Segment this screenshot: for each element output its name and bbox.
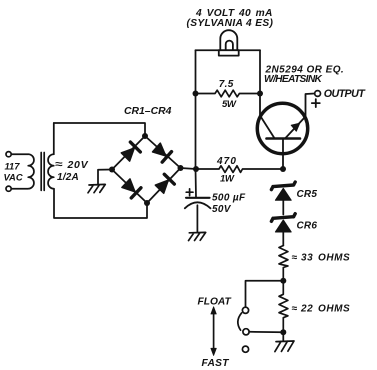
ground at R4 bottom <box>275 341 294 352</box>
selector double arrow <box>213 312 215 352</box>
node junction bus at 470 row <box>193 166 199 172</box>
bridge arm top-left <box>112 136 145 170</box>
svg-text:≈: ≈ <box>292 303 298 314</box>
svg-text:CR6: CR6 <box>297 221 318 232</box>
svg-text:≈: ≈ <box>292 253 298 264</box>
switch S1 wiper arc <box>238 313 242 330</box>
bridge arm bottom-left <box>112 170 147 204</box>
bridge arm top-right <box>145 136 181 168</box>
svg-text:≈: ≈ <box>55 158 63 170</box>
svg-text:W/HEATSINK: W/HEATSINK <box>264 74 323 85</box>
selector arrow head up <box>211 307 216 314</box>
transformer T1 primary winding <box>28 154 34 189</box>
wire junction to ground <box>282 332 284 341</box>
svg-text:5W: 5W <box>222 99 237 110</box>
diode CR2 top-right arm <box>152 142 172 162</box>
wire lamp right lead <box>239 49 260 51</box>
switch S1 top terminal <box>242 307 248 313</box>
wire junction to switch top <box>246 281 284 308</box>
svg-text:500 µF: 500 µF <box>212 193 246 204</box>
svg-text:VAC: VAC <box>4 172 23 183</box>
node junction under transistor base <box>280 166 286 172</box>
transistor Q1 base vertical lead <box>282 139 284 170</box>
wire lamp left lead <box>196 49 219 51</box>
capacitor C1 top plate <box>186 197 210 199</box>
node bridge left <box>109 167 115 173</box>
resistor R3 33 ohm vertical zigzag <box>279 246 288 281</box>
transformer T1 core <box>41 153 44 191</box>
wire CR6 to R3 <box>282 232 284 246</box>
node bridge right <box>178 165 184 171</box>
svg-text:117: 117 <box>5 160 21 171</box>
transformer T1 secondary winding <box>48 154 54 189</box>
svg-text:FAST: FAST <box>202 358 230 369</box>
wire capacitor to ground <box>196 205 198 232</box>
svg-text:1W: 1W <box>220 173 235 184</box>
wire lamp right vertical <box>259 50 261 93</box>
node junction right of R1 <box>257 91 263 97</box>
node bridge top <box>142 133 148 139</box>
ground under capacitor <box>189 232 206 240</box>
svg-text:33 OHMS: 33 OHMS <box>301 253 350 264</box>
transistor Q1 collector lead <box>260 94 274 138</box>
transistor Q1 emitter arrow <box>291 123 300 131</box>
diode CR4 bottom-right arm <box>155 174 175 194</box>
wire primary top lead <box>11 153 28 155</box>
svg-text:1/2A: 1/2A <box>57 172 79 183</box>
wire primary bottom lead <box>11 188 28 190</box>
wire CR5 to CR6 <box>282 200 284 215</box>
svg-text:CR5: CR5 <box>297 189 318 200</box>
capacitor C1 plus sign <box>186 189 193 196</box>
svg-text:22 OHMS: 22 OHMS <box>300 303 350 314</box>
wire switch middle to junction <box>249 331 283 334</box>
transformer T1 primary terminal bottom <box>6 186 11 191</box>
diode CR5 cathode bar <box>271 182 295 190</box>
node bridge bottom <box>144 200 150 206</box>
transistor Q1 circle <box>257 103 307 153</box>
transformer T1 primary terminal top <box>6 152 11 157</box>
svg-text:OUTPUT: OUTPUT <box>324 88 366 100</box>
diode CR6 cathode bar <box>271 214 295 222</box>
svg-text:50V: 50V <box>212 204 232 215</box>
ground at bridge left <box>88 184 105 192</box>
capacitor C1 bottom curved plate <box>185 202 211 208</box>
wire main bus vertical <box>195 94 198 198</box>
lamp DS1 inner filament stem <box>226 41 233 50</box>
svg-text:CR1–CR4: CR1–CR4 <box>124 106 172 117</box>
svg-text:(SYLVANIA 4 ES): (SYLVANIA 4 ES) <box>187 18 274 29</box>
diode CR3 bottom-left arm <box>121 178 141 198</box>
wire top rail from transformer to bridge <box>54 123 145 136</box>
switch S1 bottom terminal <box>242 346 248 352</box>
lamp DS1 envelope <box>220 30 237 50</box>
transistor Q1 emitter lead <box>286 94 315 139</box>
node junction at R4 bottom <box>280 329 286 335</box>
node junction left of R1 <box>193 91 199 97</box>
bridge arm bottom-right <box>147 168 181 203</box>
transistor Q1 base bar <box>267 137 301 140</box>
wire bottom rail from transformer to bridge <box>54 189 147 218</box>
wire bridge left node to ground <box>98 170 112 185</box>
svg-text:20V: 20V <box>67 159 89 171</box>
diode CR6 triangle <box>276 220 292 232</box>
wire lamp left vertical <box>195 50 197 93</box>
svg-text:FLOAT: FLOAT <box>198 297 232 308</box>
node junction between R3 and R4 <box>280 278 286 284</box>
resistor R1 7.5 ohm zigzag <box>196 90 261 97</box>
output plus sign <box>312 99 320 107</box>
wire bridge right node to bus <box>181 168 197 169</box>
resistor R2 470 ohm zigzag <box>196 166 283 173</box>
selector arrow head down <box>211 348 216 355</box>
lamp DS1 base <box>219 50 239 55</box>
svg-text:7.5: 7.5 <box>219 79 234 90</box>
svg-text:470: 470 <box>216 156 237 167</box>
diode CR5 triangle <box>276 188 292 200</box>
resistor R4 22 ohm vertical zigzag <box>279 281 288 333</box>
diode CR1 top-left arm <box>121 142 141 162</box>
terminal OUTPUT circle <box>315 91 321 97</box>
switch S1 middle terminal <box>243 329 249 335</box>
wire secondary top lead <box>53 123 55 154</box>
